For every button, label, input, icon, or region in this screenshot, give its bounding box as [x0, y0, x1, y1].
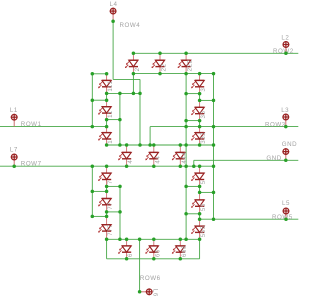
junction E3 cathode	[105, 238, 109, 242]
svg-text:L3: L3	[281, 107, 289, 114]
wire E2 cathode rung	[107, 211, 120, 213]
wire E bus vertical	[119, 186, 121, 239]
svg-text:777: 777	[107, 224, 114, 236]
svg-text:ROW7: ROW7	[21, 161, 42, 168]
junction G1 cathode	[125, 164, 129, 168]
junction E rung2 left	[91, 190, 95, 194]
junction C3 anode	[198, 217, 202, 221]
junction G2 anode	[152, 143, 156, 147]
wire GND stub	[193, 160, 195, 166]
junction helper rail end	[184, 238, 188, 242]
LED 333	[191, 127, 207, 145]
junction ROW4 end	[138, 143, 142, 147]
LED 55	[191, 192, 207, 213]
wire ROW3 drop to segment G rail	[149, 127, 151, 145]
svg-text:7: 7	[107, 180, 114, 184]
svg-text:L4: L4	[110, 1, 118, 8]
svg-text:222: 222	[187, 59, 194, 71]
junction E1 cathode	[105, 185, 109, 189]
junction B3 anode	[198, 125, 202, 129]
wire E1 cathode rung	[107, 185, 120, 187]
wirepad L6	[146, 288, 153, 295]
junction C2 anode	[198, 191, 202, 195]
junction helper ROW7	[184, 164, 188, 168]
wire A1 cathode drop	[132, 74, 134, 94]
wire ROW3 horizontal	[150, 126, 298, 128]
wire C2 cathode rung	[186, 213, 200, 215]
wire C column stub 1	[199, 186, 201, 192]
svg-text:GND: GND	[266, 155, 281, 162]
junction D1 cathode	[125, 257, 129, 261]
junction E rail top	[91, 164, 95, 168]
wire F column stub 1	[106, 93, 108, 100]
junction B1 cathode	[198, 92, 202, 96]
wire node row4 horizontal	[107, 92, 140, 94]
junction D1 anode	[125, 238, 129, 242]
wirepad L3	[282, 114, 289, 121]
svg-text:55: 55	[200, 203, 207, 211]
junction C1 anode	[198, 164, 202, 168]
svg-text:2: 2	[134, 67, 141, 71]
wire F left rail	[91, 74, 93, 127]
svg-text:L5: L5	[282, 200, 290, 207]
junction F bus top	[118, 92, 122, 96]
svg-text:4: 4	[127, 160, 134, 164]
svg-text:L6: L6	[151, 289, 158, 297]
junction F rail top corner	[91, 72, 95, 76]
wire F rung top	[92, 73, 106, 75]
junction GND pin	[284, 159, 288, 163]
LED 555	[191, 219, 207, 239]
svg-text:77: 77	[107, 202, 114, 210]
pin of pad L4	[112, 11, 114, 21]
LED 666	[172, 239, 188, 258]
junction F bus end	[118, 143, 122, 147]
junction B2 cathode	[198, 119, 202, 123]
svg-text:ROW3: ROW3	[265, 121, 286, 128]
junction E bus mid	[118, 210, 122, 214]
junction L4 pin	[111, 20, 115, 24]
pin of pad L1	[13, 117, 15, 126]
junction F rung2 left	[91, 98, 95, 102]
LED 111	[98, 74, 114, 94]
svg-text:111: 111	[107, 81, 114, 92]
svg-text:666: 666	[181, 245, 188, 257]
svg-text:11: 11	[107, 110, 114, 118]
pin of pad GND	[285, 152, 287, 161]
svg-text:ROW6: ROW6	[140, 275, 161, 282]
junction A1 anode	[132, 52, 136, 56]
wire C1 cathode rung	[186, 185, 200, 187]
junction E2 anode	[105, 190, 109, 194]
LED 1	[98, 127, 114, 145]
svg-text:555: 555	[200, 225, 207, 237]
junction E bus end	[118, 238, 122, 242]
junction C3 cathode	[198, 238, 202, 242]
junction rail W1	[212, 143, 216, 147]
LED 77	[98, 191, 114, 212]
LED 22	[152, 53, 168, 73]
LED 33	[191, 100, 207, 120]
wire segment D anode rail	[107, 238, 200, 240]
svg-text:GND: GND	[282, 141, 297, 148]
svg-text:22: 22	[161, 63, 168, 71]
junction A1 cathode	[132, 72, 136, 76]
junction E rung3 left	[91, 215, 95, 219]
junction D3 cathode	[179, 257, 183, 261]
junction F2 cathode	[105, 118, 109, 122]
LED 2	[125, 53, 141, 73]
pin of pad L5	[285, 211, 287, 219]
wire F column stub 2	[106, 120, 108, 127]
LED 44	[145, 145, 161, 166]
wire segment D cathode rail	[107, 258, 200, 260]
junction A1 drop	[132, 92, 136, 96]
svg-text:ROW5: ROW5	[272, 214, 293, 221]
LED 5	[191, 166, 207, 186]
junction C rung3 left	[184, 212, 188, 216]
pin of pad L6	[140, 291, 150, 293]
wire F2 cathode rung	[107, 119, 120, 121]
wire segment-A cathode rail	[133, 73, 213, 75]
junction F3 cathode	[105, 143, 109, 147]
LED 11	[98, 100, 114, 119]
junction ROW4 cross	[138, 92, 142, 96]
wire F bus vertical	[119, 93, 121, 145]
wire B1 cathode rung	[186, 93, 200, 95]
junction rail ROW7	[212, 164, 216, 168]
junction L6 pin	[138, 290, 142, 294]
svg-text:ROW1: ROW1	[21, 121, 42, 128]
wirepad L4	[110, 8, 117, 15]
svg-text:333: 333	[200, 132, 207, 144]
junction A3 cathode	[184, 72, 188, 76]
junction L5 pin	[284, 217, 288, 221]
svg-text:66: 66	[154, 249, 161, 257]
LED 7	[98, 166, 114, 186]
wire D box right	[199, 239, 201, 258]
LED 222	[178, 53, 194, 73]
junction rail top	[212, 72, 216, 76]
svg-text:33: 33	[200, 111, 207, 119]
wirepad L5	[283, 208, 290, 215]
wire ROW4 vertical from pad	[112, 21, 114, 79]
junction E1 anode	[105, 164, 109, 168]
junction ROW6 top	[138, 238, 142, 242]
junction L7 pin	[12, 164, 16, 168]
junction F bus mid	[118, 118, 122, 122]
wire GND horizontal	[194, 159, 298, 161]
junction helper rail W1	[184, 143, 188, 147]
junction G3 cathode	[179, 164, 183, 168]
junction F2 anode	[105, 98, 109, 102]
junction E2 cathode	[105, 210, 109, 214]
wire B/C helper rail	[185, 74, 187, 240]
wire ROW4 vertical to segment G	[139, 79, 141, 145]
junction B1 anode	[198, 72, 202, 76]
wirepad GND	[282, 148, 289, 155]
pin of pad L3	[285, 117, 287, 127]
wire C rung right	[200, 191, 214, 193]
junction G1 anode	[125, 143, 129, 147]
junction C rung1 left	[184, 185, 188, 189]
svg-text:3: 3	[200, 88, 207, 92]
wirepad L1	[11, 114, 18, 121]
junction C rung right	[212, 191, 216, 195]
wire ROW4 jog horizontal	[113, 78, 140, 80]
junction C2 cathode	[198, 212, 202, 216]
svg-text:44: 44	[154, 156, 161, 164]
LED 444	[172, 145, 188, 166]
junction ROW3 helper rail	[184, 125, 188, 129]
junction E bus top	[118, 185, 122, 189]
junction D3 anode	[179, 238, 183, 242]
wire ROW1 horizontal	[0, 126, 107, 128]
wire D box left	[106, 239, 108, 258]
junction D2 cathode	[152, 257, 156, 261]
wire E rung 2	[92, 190, 106, 192]
wire ROW2 top horizontal	[133, 52, 298, 54]
wire B column stub 2	[199, 121, 201, 127]
pin of pad L7	[13, 157, 15, 166]
wire ROW5 horizontal	[200, 218, 299, 220]
junction ROW3 drop W1	[148, 143, 152, 147]
wire E left rail	[91, 166, 93, 216]
junction A3 anode	[184, 52, 188, 56]
junction L2 pin	[284, 52, 288, 56]
junction L3 pin	[284, 125, 288, 129]
svg-text:6: 6	[127, 253, 134, 257]
svg-text:444: 444	[181, 152, 188, 164]
wire E rung 3	[92, 215, 106, 217]
svg-text:1: 1	[107, 140, 114, 144]
junction C1 cathode	[198, 185, 202, 189]
junction E3 anode	[105, 215, 109, 219]
wire segment G anode rail	[107, 144, 214, 146]
LED 777	[98, 216, 114, 239]
junction GND stub	[192, 164, 196, 168]
svg-text:L1: L1	[10, 107, 18, 114]
junction B3 cathode	[198, 143, 202, 147]
wire E column stub 2	[106, 212, 108, 217]
LED 66	[145, 239, 161, 258]
junction F1 anode	[105, 72, 109, 76]
svg-text:L7: L7	[10, 146, 18, 153]
svg-text:ROW4: ROW4	[120, 22, 141, 29]
junction G3 anode	[179, 143, 183, 147]
junction B2 anode	[198, 99, 202, 103]
wire E column stub 1	[106, 186, 108, 191]
wire C column stub 2	[199, 214, 201, 219]
junction ROW1 rail	[91, 125, 95, 129]
svg-text:5: 5	[200, 180, 207, 184]
junction rail ROW5	[212, 217, 216, 221]
svg-text:ROW2: ROW2	[273, 48, 294, 55]
LED 3	[191, 74, 207, 94]
junction D2 anode	[152, 238, 156, 242]
pin of pad L2	[285, 45, 287, 54]
junction A2 anode	[158, 52, 162, 56]
wire ROW6 vertical	[139, 239, 141, 291]
wire B rung right	[200, 99, 214, 101]
junction G2 cathode	[152, 164, 156, 168]
svg-text:L2: L2	[281, 35, 289, 42]
LED 6	[118, 239, 134, 258]
junction F1 cathode	[105, 92, 109, 96]
wire B2 cathode rung	[186, 120, 200, 122]
junction B rung1 left	[184, 92, 188, 96]
LED 4	[118, 145, 134, 166]
junction ROW3 rail	[212, 125, 216, 129]
wire right rail	[213, 74, 215, 220]
junction B rung3 left	[184, 119, 188, 123]
junction B rung right	[212, 99, 216, 103]
wire F rung 2	[92, 99, 106, 101]
junction A2 cathode	[158, 72, 162, 76]
wire B column stub 1	[199, 94, 201, 101]
wire ROW7 horizontal	[0, 165, 214, 167]
wirepad L2	[283, 41, 290, 48]
junction F3 anode	[105, 125, 109, 129]
wirepad L7	[11, 154, 18, 161]
